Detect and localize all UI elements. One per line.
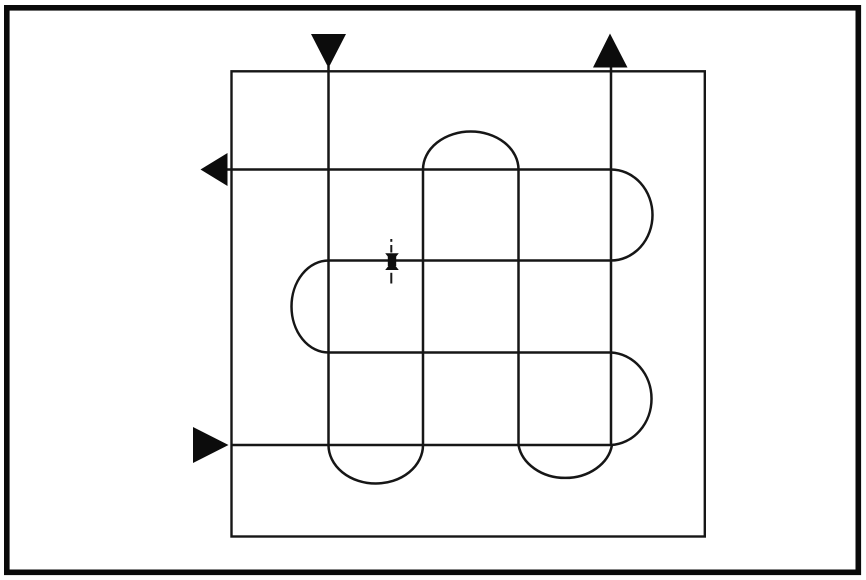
wire: horizontal scan line h4 (entry row) xyxy=(231,444,612,447)
right U-turn bump between h1 and h2 xyxy=(611,170,653,261)
arrowhead: beam exit, pointing up at top of v4 xyxy=(593,34,628,68)
bottom U-turn bump between v3 and v4 xyxy=(519,445,613,478)
wire: vertical scan line v4 (exit column) xyxy=(610,66,613,445)
arrowhead: beam entry, pointing down at top of v1 xyxy=(311,34,346,68)
wire: vertical scan line v3 xyxy=(517,170,520,446)
point marker (bowtie blob) on h2 xyxy=(385,253,399,261)
right U-turn bump between h3 and h4 xyxy=(611,353,652,446)
arrowhead: beam exit, pointing left at left end of h1 xyxy=(201,153,228,186)
wire: vertical scan line v2 xyxy=(422,170,425,446)
left U-turn bump between h2 and h3 xyxy=(292,261,329,353)
top U-turn bump between v2 and v3 xyxy=(423,132,519,170)
bottom U-turn bump between v1 and v2 xyxy=(329,445,424,484)
arrowhead: beam entry, pointing right at left end of h4 xyxy=(193,427,229,463)
wire: horizontal scan line h3 xyxy=(329,351,612,354)
wire: vertical scan line v1 (entry column) xyxy=(327,66,330,445)
scan field square xyxy=(232,71,705,536)
dash-dot reference line through point marker xyxy=(390,239,392,242)
wire: horizontal scan line h1 (exit row) xyxy=(226,168,611,171)
wire: horizontal scan line h2 xyxy=(329,259,612,262)
